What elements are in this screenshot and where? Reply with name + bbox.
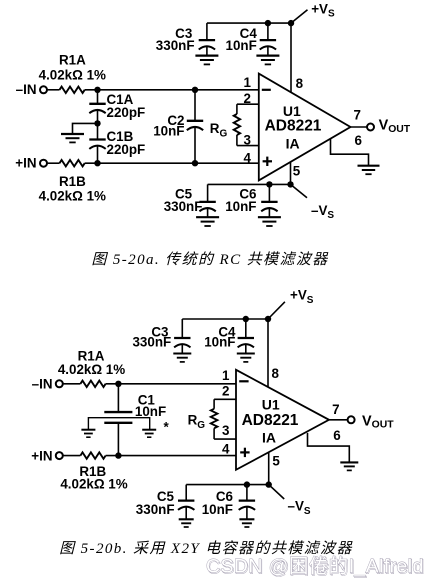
node junction dot C6 stub on -VS rail (bottom)	[244, 481, 250, 487]
wire pin 7 output (bottom)	[329, 419, 348, 421]
wire diagonal lead to -VS label	[291, 184, 308, 197]
ground (C6 bottom circuit)	[239, 518, 254, 520]
svg-text:330nF: 330nF	[164, 199, 203, 214]
svg-text:CSDN @困倦的I_Alfreld: CSDN @困倦的I_Alfreld	[206, 556, 424, 578]
svg-text:10nF: 10nF	[153, 124, 184, 139]
svg-text:4.02kΩ 1%: 4.02kΩ 1%	[39, 189, 106, 204]
wire pin 8 to +VS rail (bottom)	[267, 319, 269, 387]
op-amp plus input mark (bottom)	[240, 451, 249, 453]
ground (C3 top circuit)	[195, 54, 218, 56]
wire pin 3 stub (bottom)	[214, 438, 236, 440]
svg-text:U1: U1	[262, 397, 280, 413]
svg-text:–IN: –IN	[32, 376, 53, 391]
ground (X2Y left)	[81, 429, 95, 431]
svg-text:8: 8	[272, 366, 280, 381]
node junction dot C1 / -IN line (bottom)	[115, 381, 121, 387]
node junction dot C1B / +IN line	[94, 160, 100, 166]
wire R1B to op-amp pin 4 (bottom)	[106, 455, 236, 457]
svg-text:2: 2	[244, 91, 251, 106]
svg-text:1: 1	[244, 75, 252, 90]
node -IN terminal circle (bottom circuit)	[56, 380, 63, 387]
resistor R1A (bottom)	[80, 381, 105, 387]
wire +IN terminal to R1B (bottom)	[63, 455, 81, 457]
capacitor C2	[194, 90, 196, 121]
svg-text:10nF: 10nF	[204, 335, 235, 350]
ground (pin 6 top circuit)	[358, 165, 380, 167]
wire pin 3 stub	[237, 145, 259, 147]
capacitor C5 (bottom)	[185, 485, 187, 501]
resistor R1B	[60, 160, 85, 166]
svg-text:AD8221: AD8221	[265, 118, 322, 135]
wire RG bracket top	[236, 104, 238, 114]
svg-text:+IN: +IN	[31, 448, 52, 463]
svg-text:10nF: 10nF	[225, 199, 256, 214]
wire RG bracket bottom	[236, 135, 238, 146]
node +IN terminal circle (top circuit)	[40, 160, 47, 167]
wire RG bracket top (bottom)	[213, 399, 215, 409]
wire pin 2 stub (bottom)	[214, 398, 236, 400]
wire mid node to ground	[73, 123, 98, 133]
wire diagonal lead to +VS label (bottom)	[268, 302, 285, 319]
svg-text:IA: IA	[286, 136, 300, 152]
svg-text:R1B: R1B	[59, 174, 86, 189]
wire pin 6 to ground (bottom)	[308, 433, 350, 462]
resistor R1B (bottom)	[80, 452, 105, 458]
svg-text:图 5-20b. 采用 X2Y 电容器的共模滤波器: 图 5-20b. 采用 X2Y 电容器的共模滤波器	[59, 540, 353, 557]
op-amp minus input mark	[262, 89, 271, 91]
svg-text:图 5-20a. 传统的 RC 共模滤波器: 图 5-20a. 传统的 RC 共模滤波器	[91, 251, 329, 268]
node junction dot -VS / pin5	[287, 181, 293, 187]
capacitor C1 X2Y top lead	[117, 384, 119, 412]
node VOUT terminal circle (bottom circuit)	[348, 416, 355, 423]
svg-text:–IN: –IN	[16, 82, 37, 97]
svg-text:330nF: 330nF	[156, 38, 195, 53]
svg-text:10nF: 10nF	[226, 38, 257, 53]
svg-text:330nF: 330nF	[136, 502, 175, 517]
svg-text:AD8221: AD8221	[242, 412, 299, 429]
svg-text:2: 2	[222, 384, 229, 399]
ground (C1 mid node)	[61, 133, 84, 135]
svg-text:3: 3	[222, 423, 229, 438]
wire diagonal lead to -VS label (bottom)	[269, 485, 285, 499]
ground (pin 6 bottom circuit)	[340, 461, 358, 463]
svg-text:+IN: +IN	[15, 156, 36, 171]
wire +VS rail (top circuit)	[207, 22, 291, 24]
svg-text:3: 3	[244, 132, 251, 147]
svg-text:R1A: R1A	[59, 53, 86, 68]
capacitor C5	[207, 184, 209, 202]
wire R1A to op-amp pin 1	[85, 89, 259, 91]
svg-text:4: 4	[244, 150, 252, 165]
capacitor C4 (bottom)	[245, 319, 247, 338]
svg-text:5: 5	[293, 164, 301, 179]
svg-text:220pF: 220pF	[107, 105, 146, 120]
svg-text:6: 6	[355, 133, 362, 148]
svg-text:4.02kΩ 1%: 4.02kΩ 1%	[60, 477, 127, 492]
wire R1B to op-amp pin 4	[85, 162, 259, 164]
wire pin 8 to +VS rail	[290, 23, 292, 92]
svg-text:*: *	[164, 420, 170, 435]
node -IN terminal circle (top circuit)	[40, 86, 47, 93]
wire pin 5 to -VS rail	[290, 162, 292, 185]
node junction dot C2 / +IN line	[192, 160, 198, 166]
svg-text:5: 5	[272, 454, 280, 469]
capacitor C3 (bottom)	[181, 319, 183, 338]
node junction dot C1A / -IN line	[94, 87, 100, 93]
wire R1A to op-amp pin 1 (bottom)	[106, 383, 236, 385]
op-amp plus input mark	[263, 160, 272, 162]
capacitor C3	[206, 23, 208, 40]
node junction dot C1 / +IN line (bottom)	[115, 452, 121, 458]
capacitor C1 X2Y bottom lead	[117, 423, 119, 456]
capacitor C6	[268, 184, 270, 202]
ground (C4 top circuit)	[256, 54, 279, 56]
ground (C5 bottom circuit)	[179, 518, 194, 520]
op-amp U1 triangle (bottom circuit)	[236, 370, 329, 470]
resistor RG (top circuit)	[234, 114, 240, 135]
capacitor C1 X2Y shield plate with ground arms	[88, 418, 149, 430]
svg-text:6: 6	[333, 428, 340, 443]
op-amp U1 triangle (top circuit)	[259, 74, 351, 181]
node junction dot +VS / pin8	[288, 20, 294, 26]
svg-text:10nF: 10nF	[202, 502, 233, 517]
node junction dot C4 stub on +VS rail (bottom)	[243, 316, 249, 322]
resistor RG (bottom circuit)	[211, 409, 218, 429]
svg-text:10nF: 10nF	[135, 404, 166, 419]
node mid junction dot between C1A and C1B	[94, 120, 100, 126]
wire pin 2 stub	[237, 103, 259, 105]
capacitor C4	[267, 23, 269, 40]
svg-text:7: 7	[332, 402, 339, 417]
wire -VS rail (top circuit)	[208, 183, 291, 185]
svg-text:4: 4	[222, 442, 230, 457]
svg-text:4.02kΩ 1%: 4.02kΩ 1%	[58, 362, 125, 377]
svg-text:7: 7	[354, 108, 361, 123]
capacitor C1A	[97, 90, 99, 103]
resistor R1A	[60, 87, 85, 93]
node +IN terminal circle (bottom circuit)	[56, 452, 63, 459]
wire -IN terminal to R1A (bottom)	[63, 383, 81, 385]
ground (C6 top circuit)	[258, 216, 281, 218]
node junction dot +VS / pin8 (bottom)	[265, 316, 271, 322]
svg-text:220pF: 220pF	[107, 142, 146, 157]
wire diagonal lead to +VS label	[291, 10, 308, 23]
capacitor C1 X2Y top plate	[104, 411, 132, 413]
svg-text:4.02kΩ 1%: 4.02kΩ 1%	[39, 68, 106, 83]
node junction dot -VS / pin5 (bottom)	[266, 481, 272, 487]
wire +IN terminal to R1B	[47, 162, 60, 164]
wire -VS rail (bottom circuit)	[186, 484, 269, 486]
node junction dot C4 stub on +VS rail	[265, 20, 271, 26]
wire pin 5 to -VS rail (bottom)	[268, 452, 270, 484]
capacitor C1 X2Y bottom plate	[104, 422, 132, 424]
capacitor C1B	[97, 123, 99, 139]
ground (C5 top circuit)	[196, 216, 219, 218]
svg-text:8: 8	[296, 76, 304, 91]
node junction dot C6 stub on -VS rail	[266, 181, 272, 187]
svg-text:1: 1	[222, 368, 230, 383]
wire RG bracket bottom (bottom)	[213, 428, 215, 439]
op-amp minus input mark (bottom)	[239, 380, 248, 382]
wire pin 7 output	[351, 126, 368, 128]
ground (X2Y right)	[142, 429, 156, 431]
ground (C3 bottom circuit)	[173, 352, 191, 354]
ground (C4 bottom circuit)	[237, 352, 255, 354]
wire pin 6 to ground	[331, 139, 369, 166]
svg-text:330nF: 330nF	[132, 335, 171, 350]
wire +VS rail (bottom circuit)	[182, 318, 268, 320]
node junction dot C2 / -IN line	[192, 87, 198, 93]
wire -IN terminal to R1A	[47, 89, 60, 91]
svg-text:IA: IA	[262, 430, 276, 446]
node VOUT terminal circle (top circuit)	[367, 124, 374, 131]
capacitor C6 (bottom)	[246, 485, 248, 501]
